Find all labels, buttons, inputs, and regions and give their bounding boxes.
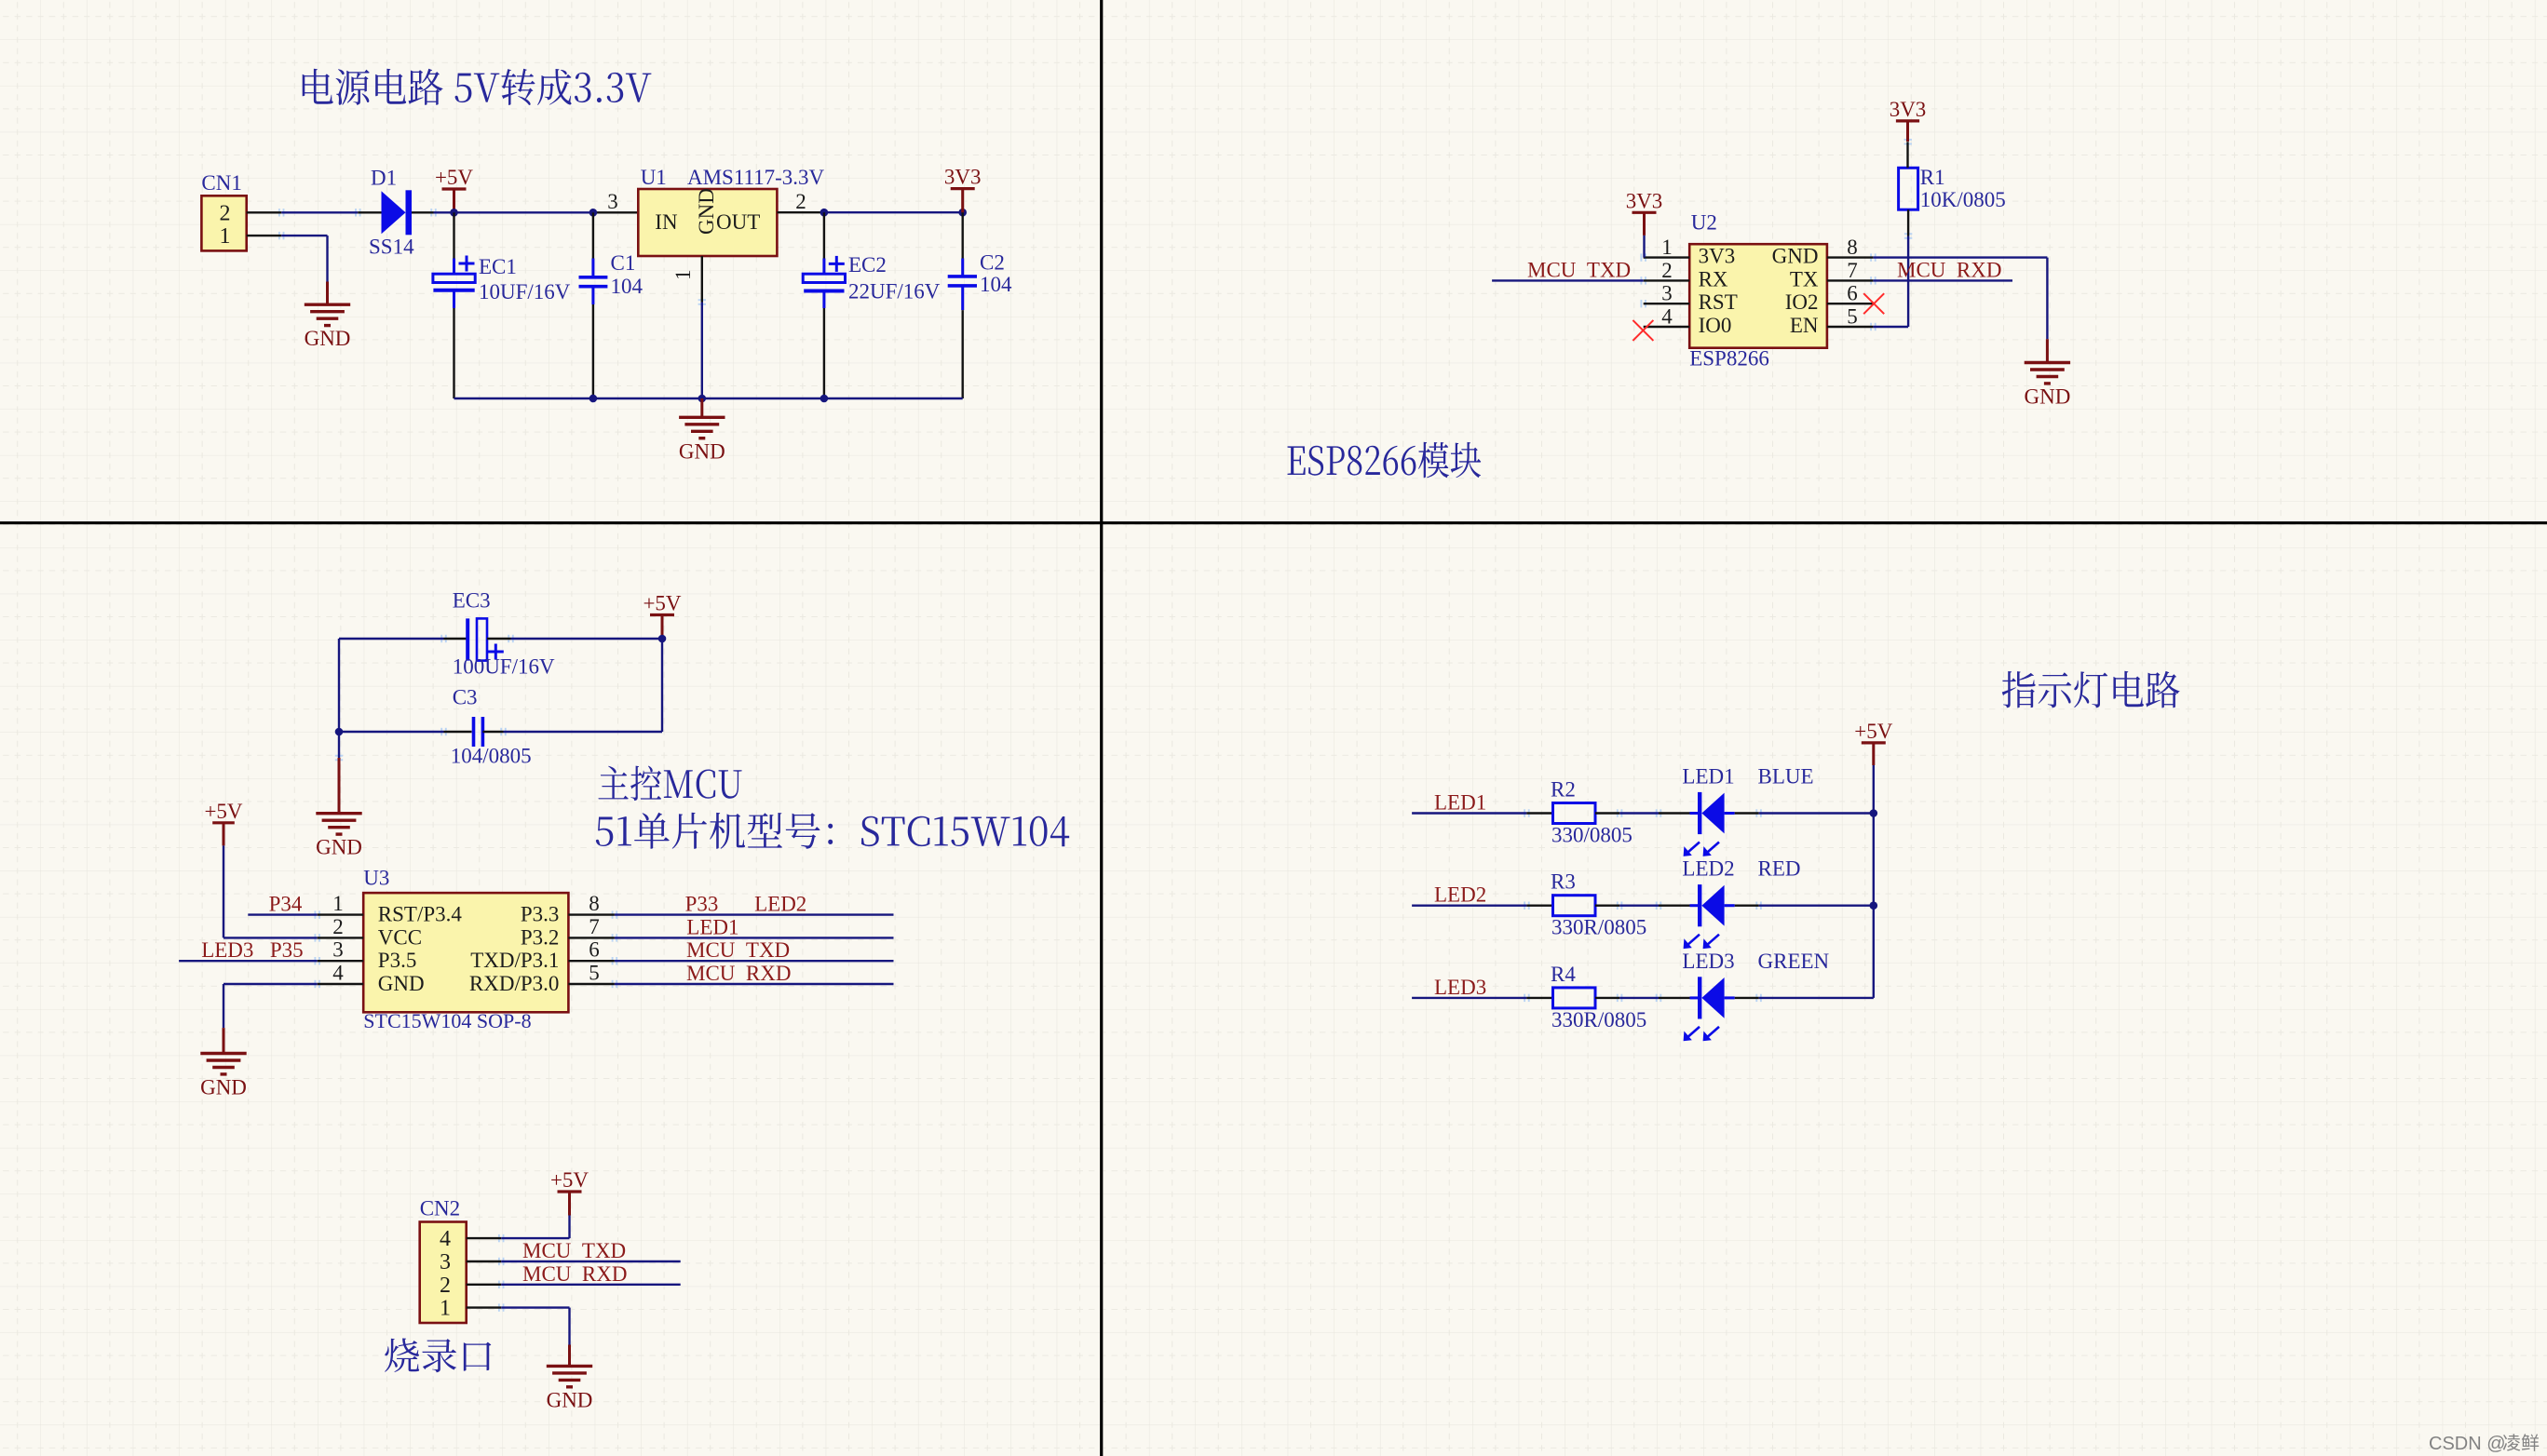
3V3 flag (U2 pin1)	[1633, 211, 1657, 214]
svg-text:R4: R4	[1551, 963, 1576, 986]
svg-text:U1: U1	[641, 166, 667, 189]
svg-text:P3.2: P3.2	[521, 925, 560, 949]
svg-text:GND: GND	[2024, 385, 2070, 409]
GND rail	[454, 398, 963, 399]
+5V flag (EC3)	[650, 613, 674, 616]
LED emission arrow	[1684, 935, 1700, 949]
R4 left pin	[1526, 997, 1552, 999]
GND stem CN1	[326, 282, 329, 305]
junction rail C1	[589, 395, 598, 403]
wire LED2 left	[1412, 905, 1526, 907]
CN2 pin 2 stub	[467, 1284, 502, 1286]
left wire EC3/C3	[338, 639, 340, 732]
svg-text:+5V: +5V	[435, 166, 473, 189]
wire CN1.2 to D1	[281, 211, 358, 213]
LED LED1 BLUE	[1659, 792, 1759, 834]
junction rail U1	[698, 395, 707, 403]
svg-text:R3: R3	[1551, 870, 1576, 894]
svg-text:EN: EN	[1790, 314, 1819, 337]
svg-text:RED: RED	[1758, 857, 1801, 881]
wire down to GND	[338, 732, 340, 758]
svg-text:MCU RXD: MCU RXD	[1897, 258, 2001, 281]
svg-text:LED1: LED1	[1434, 791, 1486, 815]
wire LED2 to rail	[1759, 905, 1874, 907]
wire U3 right	[615, 913, 894, 915]
svg-text:3V3: 3V3	[1890, 98, 1927, 121]
wire LED1 left	[1412, 812, 1526, 814]
svg-text:3V3: 3V3	[1626, 189, 1663, 212]
+5V stem	[661, 615, 664, 640]
+5V flag (LED)	[1862, 741, 1886, 744]
wire U3 GND	[224, 983, 318, 985]
junction EC3/+5V	[658, 635, 667, 643]
svg-text:LED2: LED2	[1682, 857, 1734, 881]
svg-text:U3: U3	[363, 866, 389, 889]
U3 pin 3 stub	[318, 960, 364, 962]
title: indicator LED circuit	[2002, 671, 2180, 708]
svg-text:BLUE: BLUE	[1758, 765, 1814, 789]
wire U1 out to 3V3	[823, 211, 963, 213]
svg-text:IO0: IO0	[1699, 314, 1732, 337]
svg-text:8: 8	[1847, 236, 1858, 259]
svg-text:2: 2	[332, 915, 344, 938]
LED rail	[1873, 814, 1875, 998]
ground (U3)	[200, 1054, 246, 1074]
svg-text:LED1: LED1	[686, 915, 738, 938]
CN1 pin1 stub	[247, 235, 282, 236]
svg-text:MCU TXD: MCU TXD	[686, 938, 790, 962]
wire down to C3	[661, 639, 663, 732]
svg-text:CN1: CN1	[201, 171, 241, 195]
svg-text:6: 6	[589, 938, 600, 962]
U2 pin 1 stub	[1644, 256, 1690, 258]
wire LED3 left	[1412, 997, 1526, 999]
CN2 pin 3 stub	[467, 1261, 502, 1262]
ground (CN1)	[305, 304, 350, 325]
svg-text:2: 2	[795, 190, 806, 213]
+5V stem U3	[223, 823, 225, 846]
svg-text:104: 104	[611, 275, 644, 298]
LED emission arrow	[1703, 843, 1719, 856]
wire MCU_RXD	[1873, 279, 2012, 281]
R2 left pin	[1526, 812, 1552, 814]
R1 bottom pin	[1907, 209, 1909, 236]
svg-text:RXD/P3.0: RXD/P3.0	[469, 972, 560, 995]
svg-text:+5V: +5V	[643, 592, 681, 615]
GND stem	[700, 398, 703, 417]
U1 pin3 stub	[592, 211, 639, 213]
svg-text:4: 4	[1661, 305, 1673, 329]
capacitor C2 104	[948, 212, 977, 398]
resistor R3 330R/0805	[1553, 896, 1596, 916]
resistor R4 330R/0805	[1553, 988, 1596, 1008]
no-connect X on U2 pin6	[1863, 293, 1884, 314]
title: power circuit 5V to 3.3V	[303, 69, 652, 105]
GND stem CN2	[568, 1345, 571, 1367]
wire CN2 MCU_TXD	[501, 1261, 681, 1262]
svg-text:EC2: EC2	[848, 253, 887, 276]
svg-text:22UF/16V: 22UF/16V	[848, 280, 941, 303]
svg-text:GND: GND	[679, 439, 725, 463]
svg-text:6: 6	[1847, 282, 1858, 305]
svg-text:3V3: 3V3	[1699, 245, 1736, 268]
svg-text:R2: R2	[1551, 778, 1576, 802]
wire +5V down	[223, 845, 224, 937]
wire R1 to EN	[1907, 236, 1909, 328]
wire U3 right	[615, 937, 894, 938]
CN2 pin 4 stub	[467, 1237, 502, 1239]
svg-text:104: 104	[980, 273, 1012, 296]
svg-text:P3.3: P3.3	[521, 903, 560, 926]
title: programming port	[385, 1339, 491, 1373]
svg-text:GND: GND	[695, 188, 718, 235]
svg-text:10K/0805: 10K/0805	[1920, 188, 2006, 211]
svg-text:GREEN: GREEN	[1758, 950, 1830, 973]
wire EC3 to +5V node	[511, 638, 663, 640]
wire CN2 MCU_RXD	[501, 1284, 681, 1286]
wire U1 GND to rail	[701, 303, 703, 399]
svg-text:C1: C1	[611, 251, 636, 275]
U2 pin 6 stub	[1827, 303, 1874, 304]
wire LED1 to rail	[1759, 812, 1874, 814]
connector CN2	[420, 1222, 467, 1324]
R4 right pin	[1595, 997, 1619, 999]
svg-text:1: 1	[671, 270, 695, 281]
svg-text:CN2: CN2	[420, 1197, 460, 1220]
svg-text:C2: C2	[980, 251, 1005, 275]
U2 pin 7 stub	[1827, 279, 1874, 281]
svg-text:LED1: LED1	[1682, 765, 1734, 789]
U3 pin 1 stub	[318, 913, 364, 915]
svg-text:3: 3	[1661, 282, 1673, 305]
watermark name	[2503, 1434, 2540, 1451]
title: ESP8266 module	[1288, 442, 1482, 479]
svg-text:VCC: VCC	[378, 925, 422, 949]
+5V stem LED	[1872, 743, 1875, 765]
U2 pin 5 stub	[1827, 326, 1874, 328]
wire R4 to LED	[1619, 997, 1659, 999]
LED emission arrow	[1703, 935, 1719, 949]
svg-text:7: 7	[1847, 259, 1858, 282]
+5V flag stem	[453, 189, 455, 212]
wire to VCC	[224, 937, 318, 938]
svg-text:5: 5	[1847, 305, 1858, 329]
junction C1	[589, 209, 598, 217]
svg-text:LED3: LED3	[1434, 976, 1486, 999]
junction LED1	[1870, 809, 1878, 817]
svg-text:1: 1	[332, 892, 344, 915]
svg-text:U2: U2	[1691, 211, 1717, 235]
svg-text:4: 4	[332, 962, 344, 985]
svg-text:R1: R1	[1920, 166, 1945, 189]
svg-text:IN: IN	[655, 210, 678, 234]
svg-text:D1: D1	[371, 166, 397, 189]
wire CN2.1 down	[568, 1308, 570, 1345]
svg-text:MCU TXD: MCU TXD	[1527, 258, 1631, 281]
svg-text:GND: GND	[305, 327, 351, 350]
junction EC2	[820, 209, 829, 217]
U2 pin 2 stub	[1644, 279, 1690, 281]
svg-text:MCU RXD: MCU RXD	[522, 1262, 627, 1286]
wire U3 right	[615, 983, 894, 985]
+5V stem CN2	[568, 1192, 571, 1216]
connector CN1	[201, 195, 246, 250]
wire P34	[248, 913, 317, 915]
svg-text:MCU TXD: MCU TXD	[522, 1239, 626, 1262]
svg-text:+5V: +5V	[204, 800, 242, 823]
svg-text:OUT: OUT	[716, 210, 760, 234]
3V3 stem navy	[1643, 236, 1645, 258]
LED emission arrow	[1684, 1027, 1700, 1041]
svg-text:GND: GND	[1772, 245, 1819, 268]
wire U3 right	[615, 960, 894, 962]
capacitor C3 104/0805	[444, 717, 504, 747]
svg-text:GND: GND	[316, 836, 362, 859]
resistor R1 10K	[1899, 168, 1918, 209]
svg-text:1: 1	[1661, 236, 1673, 259]
svg-text:GND: GND	[378, 972, 425, 995]
U3 pin 5 stub	[568, 983, 615, 985]
divider horizontal	[0, 521, 2547, 524]
U2 pin 8 stub	[1827, 256, 1874, 258]
svg-text:5: 5	[589, 962, 600, 985]
svg-text:8: 8	[589, 892, 600, 915]
R3 left pin	[1526, 905, 1552, 907]
ground (EC3/C3)	[316, 814, 361, 834]
svg-text:CSDN @: CSDN @	[2429, 1434, 2506, 1454]
svg-text:100UF/16V: 100UF/16V	[453, 654, 555, 678]
svg-text:C3: C3	[453, 686, 478, 709]
U3 pin 6 stub	[568, 960, 615, 962]
svg-text:330/0805: 330/0805	[1551, 824, 1633, 847]
ground (CN2)	[547, 1366, 592, 1386]
U1 pin2 stub	[777, 211, 823, 213]
+5V stem navy CN2	[568, 1216, 570, 1239]
capacitor EC1 10UF/16V	[433, 212, 475, 398]
svg-text:10UF/16V: 10UF/16V	[479, 280, 571, 303]
svg-text:IO2: IO2	[1785, 290, 1819, 314]
wire C3 to right	[504, 731, 663, 733]
wire U2 GND	[1873, 256, 2047, 258]
U3 pin 7 stub	[568, 937, 615, 938]
svg-text:TXD/P3.1: TXD/P3.1	[470, 949, 559, 972]
3V3 stem (R1)	[1906, 121, 1909, 142]
svg-text:STC15W104 SOP-8: STC15W104 SOP-8	[363, 1009, 531, 1032]
svg-text:1: 1	[220, 224, 231, 249]
wire R2 to LED	[1619, 812, 1659, 814]
GND stem U3	[223, 1028, 225, 1053]
title: main MCU	[598, 766, 741, 802]
U2 pin 3 stub	[1644, 303, 1690, 304]
capacitor C1 104	[579, 212, 608, 398]
junction LED2	[1870, 901, 1878, 910]
capacitor EC3 100UF/16V	[444, 618, 511, 660]
svg-text:GND: GND	[200, 1076, 247, 1099]
divider vertical	[1100, 0, 1103, 1456]
svg-text:LED3: LED3	[201, 938, 253, 962]
wire EN	[1873, 326, 1908, 328]
LED LED3 GREEN	[1659, 977, 1759, 1018]
svg-text:LED2: LED2	[754, 893, 806, 916]
wire LED3/P35	[179, 960, 318, 962]
wire MCU_TXD	[1492, 279, 1644, 281]
CN1 pin2 stub	[247, 211, 282, 213]
svg-text:+5V: +5V	[550, 1168, 589, 1192]
svg-text:AMS1117-3.3V: AMS1117-3.3V	[687, 166, 825, 189]
svg-text:LED2: LED2	[1434, 883, 1486, 907]
resistor R2 330/0805	[1553, 803, 1596, 824]
svg-text:3V3: 3V3	[944, 166, 982, 189]
wire to EC3	[339, 638, 444, 640]
junction C3 left	[335, 728, 344, 736]
svg-text:1: 1	[440, 1297, 451, 1321]
svg-text:3: 3	[332, 938, 344, 962]
svg-text:2: 2	[220, 201, 231, 225]
svg-text:2: 2	[440, 1274, 451, 1298]
3V3 flag (R1)	[1896, 119, 1919, 122]
junction C2/3V3	[958, 209, 967, 217]
CN2 pin 1 stub	[467, 1306, 502, 1308]
U1 pin1 stub	[701, 256, 703, 303]
LED LED2 RED	[1659, 884, 1759, 926]
IC U2 ESP8266	[1689, 244, 1827, 348]
U2 pin 4 stub	[1644, 326, 1690, 328]
ground (power circuit)	[679, 417, 725, 438]
svg-text:2: 2	[1661, 259, 1673, 282]
svg-text:ESP8266: ESP8266	[1689, 347, 1769, 371]
GND stem EC3	[338, 758, 341, 814]
svg-text:104/0805: 104/0805	[451, 745, 532, 768]
svg-text:LED3: LED3	[1682, 950, 1734, 973]
wire U3 GND down	[223, 984, 224, 1028]
wire U2 GND down	[2046, 258, 2048, 340]
svg-text:RST: RST	[1699, 290, 1738, 314]
R2 right pin	[1595, 812, 1619, 814]
+5V flag (U3)	[212, 821, 235, 824]
junction rail EC2	[820, 395, 829, 403]
pin end markers	[279, 140, 1912, 1312]
wire LED3 to rail	[1759, 997, 1874, 999]
wire CN1.1 down	[326, 236, 328, 281]
R3 right pin	[1595, 905, 1619, 907]
ground (ESP8266)	[2025, 363, 2070, 384]
U3 pin 4 stub	[318, 983, 364, 985]
capacitor EC2 22UF/16V	[803, 212, 845, 398]
svg-text:3: 3	[607, 190, 618, 213]
wire CN2.1	[501, 1306, 569, 1308]
svg-text:P35: P35	[270, 938, 304, 962]
svg-text:330R/0805: 330R/0805	[1551, 1008, 1646, 1031]
LED emission arrow	[1703, 1027, 1719, 1041]
wire R3 to LED	[1619, 905, 1659, 907]
regulator U1 AMS1117-3.3V	[638, 189, 777, 256]
svg-text:P33: P33	[685, 893, 719, 916]
MCU U3 STC15W104	[363, 893, 568, 1012]
junction +5V/EC1	[450, 209, 458, 217]
svg-text:P34: P34	[269, 893, 303, 916]
svg-text:RX: RX	[1699, 267, 1728, 290]
svg-text:SS14: SS14	[369, 236, 414, 259]
+5V power flag (top-left)	[442, 187, 467, 190]
wire D1 to U1 (net +5V)	[434, 211, 592, 213]
R1 top pin	[1906, 142, 1908, 168]
+5V wire down	[1873, 765, 1875, 814]
svg-text:3: 3	[440, 1250, 451, 1274]
3V3 stem maroon	[1643, 212, 1646, 236]
+5V flag (CN2)	[558, 1190, 582, 1193]
title: MCU model STC15W104	[596, 813, 1069, 849]
svg-text:4: 4	[440, 1227, 451, 1251]
svg-text:MCU RXD: MCU RXD	[686, 962, 791, 985]
diode D1 SS14	[358, 190, 433, 235]
svg-text:EC3: EC3	[453, 589, 491, 613]
svg-text:TX: TX	[1790, 267, 1819, 290]
U3 pin 2 stub	[318, 937, 364, 938]
svg-text:RST/P3.4: RST/P3.4	[378, 903, 463, 926]
wire CN2.4 to +5V	[501, 1237, 569, 1239]
svg-text:P3.5: P3.5	[378, 949, 417, 972]
U3 pin 8 stub	[568, 913, 615, 915]
LED emission arrow	[1684, 843, 1700, 856]
svg-text:330R/0805: 330R/0805	[1551, 916, 1646, 939]
wire CN1.1	[281, 235, 327, 236]
3V3 power flag (top-left)	[951, 187, 975, 190]
GND stem U2	[2046, 339, 2049, 362]
wire to C3	[339, 731, 444, 733]
svg-text:7: 7	[589, 915, 600, 938]
3V3 flag stem	[961, 189, 964, 213]
no-connect X on U2 pin4	[1633, 320, 1653, 341]
svg-text:+5V: +5V	[1854, 720, 1892, 743]
svg-text:GND: GND	[547, 1388, 593, 1411]
svg-text:EC1: EC1	[479, 255, 517, 278]
